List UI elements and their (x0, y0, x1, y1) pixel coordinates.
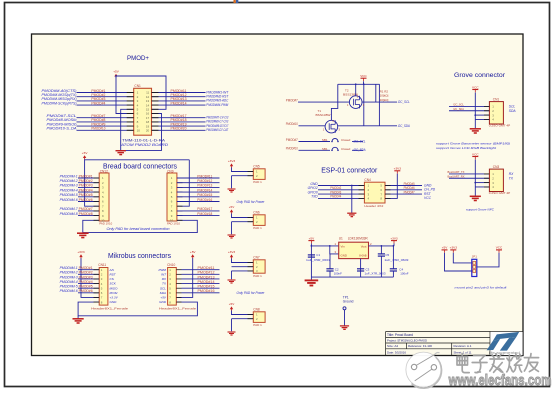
ground (CN1) (116, 151, 126, 155)
transistor T1 (325, 120, 338, 133)
svg-text:+5V: +5V (190, 250, 197, 254)
svg-text:ESP-01 connector: ESP-01 connector (321, 166, 378, 175)
svg-text:I2C_SDA: I2C_SDA (353, 148, 366, 152)
transistor T2 (349, 96, 362, 109)
solder bridge SB1 (299, 141, 331, 143)
ground (TP1) (340, 326, 349, 329)
svg-text:CN4: CN4 (364, 178, 371, 182)
svg-text:PMOD#15: PMOD#15 (198, 285, 215, 289)
wire net PMOD#11 right (152, 92, 206, 94)
ST logo (490, 332, 522, 355)
wire VCC rail (363, 81, 365, 84)
svg-text:PWM: PWM (158, 268, 166, 272)
wire net UART_TX grove (449, 173, 489, 175)
svg-text:Project: STM32NUCLEO-PMOD: Project: STM32NUCLEO-PMOD (387, 339, 428, 343)
svg-text:SB1: SB1 (322, 147, 328, 151)
wire regulator ground rail (311, 276, 393, 278)
svg-text:+5V: +5V (442, 246, 449, 250)
svg-text:PMOD#M-2: PMOD#M-2 (60, 179, 78, 183)
svg-text:+3.3V: +3.3V (110, 296, 119, 300)
svg-text:PMOD#M4-PWM: PMOD#M4-PWM (206, 103, 228, 107)
svg-text:PMOD#10: PMOD#10 (91, 127, 105, 131)
svg-text:+5V: +5V (82, 151, 89, 155)
svg-text:PMOD#11: PMOD#11 (198, 266, 215, 270)
wire net PMOD#20 right (152, 129, 206, 131)
svg-text:+5V: +5V (229, 205, 236, 209)
ground (mikrobus) (77, 316, 79, 319)
svg-text:PMOD#12: PMOD#12 (198, 271, 215, 275)
svg-text:Vin: Vin (341, 244, 346, 248)
svg-text:www.elecfans.com: www.elecfans.com (448, 372, 552, 389)
wire net I2C_SCL (298, 101, 349, 103)
connector CN4 (364, 182, 385, 203)
svg-text:CN1: CN1 (493, 97, 500, 101)
ground (grove 2) (470, 196, 481, 200)
wire net PMOD#12 right (152, 96, 206, 98)
svg-text:PMOD#M-7: PMOD#M-7 (60, 207, 78, 211)
svg-text:PMOD#M-3: PMOD#M-3 (60, 275, 78, 279)
wire T1 gate to VCC rail (331, 84, 337, 120)
svg-text:PMOD#1: PMOD#1 (79, 174, 93, 178)
title block (386, 332, 523, 356)
wire net UART_RX grove (449, 177, 489, 179)
svg-text:PMOD#M-5: PMOD#M-5 (60, 285, 78, 289)
wire +5V rail bread board (84, 158, 86, 161)
connector CN5 (253, 169, 265, 180)
wire ESP-01 left row 4 (318, 197, 364, 199)
wire net PMOD#17 right (152, 117, 206, 119)
svg-text:TMM-110-01-L-D-RA: TMM-110-01-L-D-RA (122, 139, 166, 143)
wire TP1 to ground (344, 310, 346, 326)
wire mikrobus left pin4 (78, 283, 99, 285)
svg-text:100nF: 100nF (334, 272, 342, 276)
wire VCC to J1 pin2 (477, 253, 499, 267)
wire mikrobus ground rail (78, 302, 197, 316)
svg-text:PMOD#10-S_DA: PMOD#10-S_DA (47, 127, 78, 131)
svg-text:Date: 3/5/2016: Date: 3/5/2016 (387, 350, 406, 354)
wire ESP-01 left row 3 (318, 193, 364, 195)
svg-text:PAD 1X10: PAD 1X10 (99, 221, 112, 225)
watermark logo circle (406, 352, 442, 388)
wire net I2C_SCL grove (449, 105, 489, 107)
wire +5V input rail (310, 243, 312, 277)
svg-text:PMOD#15: PMOD#15 (197, 193, 212, 197)
svg-text:Ground: Ground (343, 300, 354, 304)
wire CN1 pin5 to ground (121, 109, 134, 150)
svg-text:JP1: JP1 (472, 255, 478, 259)
svg-text:PMOD#M-3: PMOD#M-3 (60, 184, 78, 188)
svg-text:MOSI: MOSI (110, 291, 118, 295)
svg-text:Header 4X2: Header 4X2 (364, 204, 383, 208)
svg-text:PMOD#M-4: PMOD#M-4 (60, 280, 78, 284)
svg-text:Only PAD for bread board conne: Only PAD for bread board connection (107, 227, 170, 231)
ground (regulator) (310, 277, 312, 280)
capacitor C3 (357, 268, 364, 270)
svg-text:PMOD#14: PMOD#14 (198, 280, 215, 284)
wire VCC to grove2 pin3 and pin4 to ground (474, 160, 476, 197)
solder bridge SB2 (299, 149, 331, 151)
svg-text:VCC: VCC (472, 85, 479, 89)
svg-text:Header8X1_Female: Header8X1_Female (159, 307, 196, 311)
svg-text:+3V3: +3V3 (390, 236, 398, 240)
wire +5V to J1 pin3 (445, 253, 472, 271)
ground (CN5) (228, 189, 236, 192)
svg-text:Only PAD for Power: Only PAD for Power (237, 291, 266, 295)
svg-text:CN10: CN10 (167, 263, 175, 267)
svg-text:PMOD#14: PMOD#14 (171, 101, 187, 105)
wire ESP-01 left row 2 (318, 189, 364, 191)
wire +3V3 to CN11 pin7 (81, 258, 99, 297)
wire +3V3 to CN7 (232, 259, 254, 263)
ground (grove 1) (470, 129, 481, 133)
svg-text:mount pin2 and pin3 for defaul: mount pin2 and pin3 for default (455, 286, 507, 290)
ground (CN7) (228, 280, 236, 283)
svg-text:LDK130M33R: LDK130M33R (348, 237, 369, 241)
wire bread board left pin1 (78, 177, 99, 179)
wire net PMOD#14 right (152, 104, 206, 106)
connector CN7 (253, 260, 265, 273)
schematic sheet (32, 34, 524, 356)
svg-text:Vout: Vout (361, 244, 367, 248)
svg-text:ATOM PMOD2 BOARD: ATOM PMOD2 BOARD (120, 143, 169, 147)
capacitor C4 (390, 268, 397, 270)
svg-text:PMOD#11: PMOD#11 (197, 174, 212, 178)
wire Vout verticals (380, 246, 382, 254)
svg-text:PMOD#13: PMOD#13 (198, 275, 215, 279)
svg-text:PMOD#M-1: PMOD#M-1 (60, 174, 78, 178)
svg-text:PMOD#M-SCKp(RTS): PMOD#M-SCKp(RTS) (42, 101, 77, 105)
wire bread board right pin9 (177, 215, 220, 217)
svg-text:PMOD#7: PMOD#7 (79, 207, 93, 211)
svg-text:0.2SO GMT 4P: 0.2SO GMT 4P (489, 124, 511, 128)
svg-text:support Grove Barometer sensor: support Grove Barometer sensor (BMP180) (436, 142, 510, 146)
wire net PMOD#1 left (77, 92, 134, 94)
wire net I2C_SDA (299, 125, 326, 127)
svg-text:GND: GND (110, 300, 118, 304)
svg-text:Reference: F1-100: Reference: F1-100 (408, 344, 432, 348)
svg-text:PMOD#16: PMOD#16 (198, 289, 215, 293)
wire mikrobus right pin6 (182, 292, 220, 294)
svg-text:PMOD#13: PMOD#13 (197, 184, 212, 188)
svg-text:PMOD#M-8: PMOD#M-8 (60, 212, 78, 216)
wire bread board ground rail (83, 220, 198, 232)
svg-text:+3V3: +3V3 (228, 159, 236, 163)
svg-text:Closed: Closed (341, 147, 351, 151)
wire bread board right pin1 (177, 177, 220, 179)
svg-text:TXD: TXD (311, 195, 318, 199)
wire net I2C_SDA grove (449, 110, 489, 112)
svg-text:PMOD#M-4: PMOD#M-4 (60, 188, 78, 192)
wire bread board left pin6 (78, 201, 99, 203)
wire U1 GND to rail (360, 259, 362, 278)
wire mikrobus left pin1 (78, 269, 99, 271)
svg-text:SDA: SDA (160, 291, 166, 295)
svg-text:PMOD#M-1: PMOD#M-1 (60, 266, 78, 270)
wire ESP-01 right row 2 (385, 189, 422, 191)
wire mikrobus right pin3 (182, 278, 220, 280)
svg-text:I2C_SCL: I2C_SCL (398, 100, 410, 104)
svg-text:PMOD#M-6: PMOD#M-6 (60, 198, 78, 202)
jumper J1 (472, 259, 477, 276)
wire mikrobus left pin6 (78, 292, 99, 294)
svg-text:PAD 1: PAD 1 (253, 323, 262, 327)
svg-text:+5V: +5V (309, 236, 316, 240)
wire ESP-01 right row 3 (385, 193, 422, 195)
wire ESP-01 GND to ground (351, 186, 353, 213)
connector CN2 grove (489, 102, 503, 124)
svg-text:GND: GND (159, 300, 167, 304)
svg-text:VCC: VCC (424, 196, 432, 200)
capacitor C1 (310, 253, 312, 256)
svg-text:AN: AN (109, 268, 115, 272)
svg-text:CN1: CN1 (134, 84, 141, 88)
wire net PMOD#3 left (77, 100, 134, 102)
wire VCC to SDA vertical (363, 84, 365, 126)
svg-text:CN12: CN12 (100, 169, 108, 173)
svg-text:1uF_X7R_0603: 1uF_X7R_0603 (365, 272, 386, 276)
wire +3V3 to CN5 (232, 168, 254, 172)
svg-text:C5: C5 (385, 253, 389, 257)
wire bread board left pin2 (78, 182, 99, 184)
svg-text:PMOD#12: PMOD#12 (197, 179, 212, 183)
wire +5V to CN8 (232, 311, 254, 315)
svg-text:BSS138W: BSS138W (316, 113, 331, 117)
svg-text:PMOD#4: PMOD#4 (79, 280, 93, 284)
wire bread board right pin3 (177, 186, 220, 188)
wire net PMOD#2 left (77, 96, 134, 98)
svg-text:U1: U1 (339, 237, 343, 241)
svg-text:PMOD#10: PMOD#10 (286, 147, 298, 151)
svg-text:PMOD#18: PMOD#18 (197, 212, 212, 216)
ground (CN6) (228, 235, 236, 238)
svg-text:SDA: SDA (509, 109, 517, 113)
svg-text:VCC: VCC (496, 246, 503, 250)
svg-text:PAD 1: PAD 1 (253, 274, 262, 278)
svg-text:PMOD#2: PMOD#2 (79, 179, 93, 183)
svg-text:PMOD#6: PMOD#6 (79, 198, 93, 202)
svg-text:PMOD#16: PMOD#16 (197, 198, 212, 202)
svg-text:PMOD#3: PMOD#3 (79, 275, 93, 279)
svg-text:PAD 1X10: PAD 1X10 (167, 221, 180, 225)
svg-text:1uF_X5R_0603: 1uF_X5R_0603 (306, 258, 330, 262)
wire net PMOD#8 left (77, 121, 134, 123)
svg-text:CN7: CN7 (253, 255, 260, 259)
svg-text:Mikrobus connectors: Mikrobus connectors (108, 251, 171, 260)
wire net PMOD#7 left (77, 117, 134, 119)
svg-text:Size: A4: Size: A4 (387, 344, 398, 348)
svg-text:support Grove NFC: support Grove NFC (466, 207, 495, 211)
svg-text:SB1: SB1 (322, 138, 328, 142)
svg-text:PMOD#17: PMOD#17 (197, 207, 212, 211)
connector CN3 grove (489, 169, 503, 191)
svg-text:PMOD#7: PMOD#7 (286, 138, 298, 142)
svg-text:+5V: +5V (229, 302, 236, 306)
svg-text:Closed: Closed (341, 138, 351, 142)
svg-text:PMOD#M-2: PMOD#M-2 (60, 271, 78, 275)
wire +3V3 to CN4 pin8 (385, 174, 397, 199)
wire bread board left pin8 (78, 210, 99, 212)
svg-text:10[kΩ]: 10[kΩ] (380, 98, 389, 102)
svg-text:PMOD+: PMOD+ (127, 55, 149, 62)
svg-text:PMOD#1: PMOD#1 (79, 266, 93, 270)
resistor R2 (378, 84, 380, 126)
wire net PMOD#10 left (77, 129, 134, 131)
svg-text:PMOD#3: PMOD#3 (79, 184, 93, 188)
svg-text:CN3: CN3 (493, 165, 500, 169)
svg-text:PMOD#14: PMOD#14 (197, 188, 212, 192)
svg-text:PMOD#4: PMOD#4 (79, 188, 93, 192)
wire mikrobus right pin1 (182, 269, 220, 271)
svg-text:PMOD#4: PMOD#4 (330, 195, 341, 199)
regulator U1 (339, 242, 369, 258)
connector CN9 (167, 173, 177, 221)
wire T2 drain to VCC (355, 84, 357, 96)
svg-text:PMOD#M-6: PMOD#M-6 (60, 289, 78, 293)
svg-text:Grove connector: Grove connector (454, 72, 506, 79)
svg-text:PMOD#8: PMOD#8 (79, 212, 93, 216)
connector CN10 (168, 268, 177, 306)
svg-text:+5V: +5V (160, 296, 167, 300)
connector CN6 (253, 215, 265, 226)
wire net PMOD#4 left (77, 104, 134, 106)
svg-text:CN8: CN8 (253, 307, 260, 311)
svg-text:CN9: CN9 (167, 169, 174, 173)
capacitor C2 (329, 254, 331, 269)
svg-text:Title: Pmod Board: Title: Pmod Board (387, 333, 413, 337)
ground (bread board) (82, 232, 84, 235)
svg-text:+3V3: +3V3 (450, 246, 458, 250)
svg-text:+3V3: +3V3 (77, 250, 85, 254)
watermark chinese text (457, 354, 539, 373)
svg-text:10: 10 (137, 129, 141, 133)
wire bread board right pin4 (177, 191, 220, 193)
wire +5V to CN6 (232, 214, 254, 218)
svg-text:SCK: SCK (110, 282, 117, 286)
wire +5V to CN1 pin6 and pin15 (116, 76, 166, 109)
svg-text:20: 20 (146, 129, 150, 133)
svg-text:I2C_SCL: I2C_SCL (353, 139, 365, 143)
connector CN12 (99, 173, 109, 221)
wire bread board right pin6 (177, 201, 220, 203)
ground (CN8) (228, 332, 236, 335)
svg-text:0.2SO GMT 4P: 0.2SO GMT 4P (489, 191, 511, 195)
svg-text:VCC: VCC (360, 74, 367, 78)
svg-text:PMOD#6: PMOD#6 (79, 289, 93, 293)
resistor R1 (375, 84, 377, 102)
svg-text:CN6: CN6 (253, 210, 260, 214)
wire bread board left pin3 (78, 186, 99, 188)
svg-text:Only PAD for Power: Only PAD for Power (237, 200, 266, 204)
wire mikrobus left pin5 (78, 287, 99, 289)
svg-text:C1: C1 (316, 253, 320, 257)
wire bread board right pin5 (177, 196, 220, 198)
svg-text:PMOD#M0-D7-CAT: PMOD#M0-D7-CAT (206, 128, 229, 132)
svg-text:PMOD#10: PMOD#10 (286, 122, 298, 126)
svg-text:PMOD#5: PMOD#5 (79, 285, 93, 289)
svg-text:SCL: SCL (160, 286, 166, 290)
svg-text:8-0AB: 8-0AB (359, 254, 366, 258)
svg-text:I2C_SDA: I2C_SDA (453, 107, 464, 111)
svg-text:PAD 1: PAD 1 (253, 180, 262, 184)
ground (ESP-01) (347, 213, 356, 216)
wire CN1 pin16 to ground (121, 114, 162, 151)
wire bread board left pin4 (78, 191, 99, 193)
svg-text:+3V3: +3V3 (394, 167, 402, 171)
svg-text:PMOD#7: PMOD#7 (286, 98, 298, 102)
wire bread board right pin2 (177, 182, 220, 184)
svg-text:I2C_SDA: I2C_SDA (398, 124, 411, 128)
svg-text:PMOD#20: PMOD#20 (171, 127, 187, 131)
wire net PMOD#9 left (77, 125, 134, 127)
svg-text:support Grove LCD RGB Backligh: support Grove LCD RGB Backlight (436, 146, 496, 150)
wire bread board left pin9 (78, 215, 99, 217)
svg-text:MISO: MISO (110, 286, 119, 290)
connector CN8 (253, 312, 265, 323)
wire mikrobus right pin5 (182, 287, 220, 289)
svg-text:PAD 1: PAD 1 (253, 226, 262, 230)
svg-text:VCC: VCC (472, 152, 479, 156)
wire net PMOD#13 right (152, 100, 206, 102)
wire ESP-01 left row 1 (318, 185, 364, 187)
svg-text:BusUART_RX: BusUART_RX (448, 175, 465, 179)
svg-text:Header8X1_Female: Header8X1_Female (91, 307, 128, 311)
svg-text:CN5: CN5 (253, 164, 260, 168)
wire mikrobus left pin2 (78, 273, 99, 275)
svg-text:GND: GND (341, 254, 347, 258)
wire U1 Vout rail (369, 245, 394, 247)
top edge artifact (234, 0, 236, 3)
wire bread board left pin5 (78, 196, 99, 198)
connector CN11 (99, 268, 108, 306)
svg-text:PMOD#M-5: PMOD#M-5 (60, 193, 78, 197)
wire +5V to CN10 pin7 (176, 258, 192, 297)
svg-text:PMOD#2: PMOD#2 (79, 271, 93, 275)
wire +3V3 to J1 pin1 (453, 253, 472, 263)
svg-text:PMOD#7: PMOD#7 (404, 190, 415, 194)
svg-text:100nF: 100nF (400, 272, 408, 276)
svg-text:1uF_X5R_0603: 1uF_X5R_0603 (384, 258, 408, 262)
wire bread board right pin8 (177, 210, 220, 212)
capacitor C5 (378, 253, 385, 255)
wire EN pin jog (330, 246, 339, 254)
svg-text:+5V: +5V (113, 69, 120, 73)
wire mikrobus right pin4 (182, 283, 220, 285)
svg-text:PMOD#4: PMOD#4 (91, 101, 105, 105)
wire net PMOD#19 right (152, 125, 206, 127)
svg-text:Revision: A.1: Revision: A.1 (454, 344, 472, 348)
wire net PMOD#18 right (152, 121, 206, 123)
wire mikrobus left pin3 (78, 278, 99, 280)
svg-text:+3V3: +3V3 (228, 250, 236, 254)
wire mikrobus right pin2 (182, 273, 220, 275)
wire VCC to grove1 pin3 and pin4 to ground (474, 93, 476, 129)
wire ESP-01 right row 1 (385, 185, 422, 187)
svg-text:PMOD#5: PMOD#5 (79, 193, 93, 197)
connector CN1 (134, 88, 152, 135)
svg-text:CN11: CN11 (98, 263, 106, 267)
